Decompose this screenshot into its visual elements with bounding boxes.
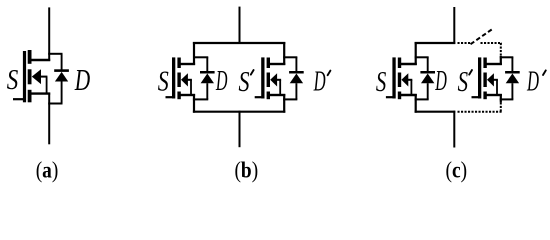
svg-text:S: S xyxy=(7,64,19,96)
node S-prime tick (b) xyxy=(251,70,254,75)
transistor Q2 body-source tie wire xyxy=(190,80,192,95)
diode DQ4 cathode wire xyxy=(427,57,429,71)
transistor Q2 drain stub wire xyxy=(180,63,195,65)
transistor Q3 channel segment bottom xyxy=(267,92,270,100)
transistor Q5 body arrow xyxy=(487,73,494,86)
transistor Q2 source stub wire xyxy=(180,94,195,96)
transistor Q5 channel segment middle xyxy=(483,73,486,88)
transistor Q1 channel segment top xyxy=(28,50,32,64)
diode DQ2 top branch wire xyxy=(193,56,208,58)
transistor Q4 source corner wire xyxy=(415,94,417,113)
wire source lead (bottom) xyxy=(48,93,50,145)
transistor Q2 channel segment middle xyxy=(177,73,180,88)
transistor Q5 gate lead wire xyxy=(472,96,480,98)
transistor Q2 source corner wire xyxy=(193,94,195,113)
svg-text:D: D xyxy=(215,65,227,97)
transistor Q4 channel segment middle xyxy=(398,73,401,88)
transistor Q2 channel segment bottom xyxy=(177,92,180,100)
transistor Q1 body tail wire xyxy=(40,76,47,78)
transistor Q5 gate bar xyxy=(478,57,481,98)
transistor Q1 body-source tie wire xyxy=(46,77,48,94)
transistor Q2 drain corner wire xyxy=(193,42,195,65)
diode DQ3 triangle xyxy=(290,74,303,84)
diode DQ3 cathode bar xyxy=(289,71,304,74)
diode DQ1 triangle xyxy=(55,72,68,82)
diode DQ3 cathode wire xyxy=(295,57,297,71)
transistor Q5 channel segment top xyxy=(483,58,486,69)
diode DQ5 cathode bar xyxy=(505,71,520,74)
transistor Q2 body tail wire xyxy=(187,79,192,81)
diode DQ5 cathode wire xyxy=(511,57,513,71)
transistor Q3 body arrow xyxy=(270,73,277,86)
diode DQ2 anode wire xyxy=(206,83,208,99)
svg-text:(b): (b) xyxy=(234,157,258,183)
transistor Q1 gate lead wire xyxy=(13,98,24,100)
wire dashed bottom corner of (c) right device xyxy=(500,102,502,111)
transistor Q4 body tail wire xyxy=(407,79,412,81)
diode DQ1 cathode wire xyxy=(61,54,63,70)
diode DQ4 triangle xyxy=(421,74,434,84)
transistor Q5 drain stub wire xyxy=(486,63,502,65)
svg-text:(c): (c) xyxy=(446,157,468,183)
transistor Q3 source stub wire xyxy=(270,94,286,96)
diode DQ3 top branch wire xyxy=(283,56,297,58)
diode DQ4 bottom branch wire xyxy=(415,98,429,100)
transistor Q1 gate bar xyxy=(23,51,26,102)
diode DQ1 top branch wire xyxy=(48,53,62,55)
transistor Q3 source corner wire xyxy=(283,94,285,113)
diode DQ1 bottom branch wire xyxy=(48,103,62,105)
svg-text:S: S xyxy=(158,66,169,98)
transistor Q4 drain stub wire xyxy=(401,63,417,65)
svg-text:D: D xyxy=(313,66,326,98)
transistor Q4 drain corner wire xyxy=(415,42,417,65)
svg-text:D: D xyxy=(74,63,90,97)
transistor Q3 channel segment top xyxy=(267,58,270,69)
transistor Q1 channel segment bottom xyxy=(28,90,32,103)
transistor Q5 body-source tie wire xyxy=(496,80,498,95)
transistor Q5 body tail wire xyxy=(493,79,498,81)
node D-prime tick (c) xyxy=(543,70,546,75)
transistor Q4 body arrow xyxy=(401,73,408,86)
transistor Q5 channel segment bottom xyxy=(483,92,486,100)
wire top rail solid of (c) xyxy=(415,42,456,44)
diode DQ4 cathode bar xyxy=(420,71,435,74)
diode DQ4 top branch wire xyxy=(415,56,429,58)
node D-prime tick (b) xyxy=(328,71,331,76)
svg-text:S: S xyxy=(239,66,250,98)
wire dashed top corner of (c) right device xyxy=(500,43,502,56)
transistor Q3 channel segment middle xyxy=(267,73,270,88)
transistor Q3 gate lead wire xyxy=(255,96,263,98)
diode DQ2 triangle xyxy=(201,74,214,84)
svg-text:D: D xyxy=(526,66,539,98)
transistor Q4 channel segment bottom xyxy=(398,92,401,100)
wire bottom lead of (c) xyxy=(453,111,455,148)
transistor Q2 gate bar xyxy=(172,57,175,98)
wire top rail dashed segment 1 of (c) xyxy=(458,42,472,44)
transistor Q4 body-source tie wire xyxy=(410,80,412,95)
transistor Q3 body-source tie wire xyxy=(279,80,281,95)
wire solid bottom corner stub of (c) right device xyxy=(500,94,502,102)
diode DQ2 cathode wire xyxy=(206,57,208,71)
wire bottom rail dashed of (c) xyxy=(458,111,502,113)
wire top lead of (b) xyxy=(239,7,241,44)
diode DQ1 anode wire xyxy=(61,81,63,103)
wire top lead of (c) xyxy=(453,7,455,44)
transistor Q3 gate bar xyxy=(261,57,264,98)
svg-text:(a): (a) xyxy=(36,157,59,183)
transistor Q3 drain corner wire xyxy=(283,42,285,65)
svg-text:S: S xyxy=(458,66,469,98)
node S-prime tick (c) xyxy=(469,70,472,75)
wire drain lead (top) xyxy=(48,7,50,61)
transistor Q5 source stub wire xyxy=(486,94,502,96)
wire bottom rail solid of (c) xyxy=(415,111,456,113)
diode DQ3 bottom branch wire xyxy=(283,98,297,100)
diode DQ5 top branch wire xyxy=(500,56,514,58)
wire top rail dashed segment 2 of (c) xyxy=(481,42,502,44)
transistor Q4 source stub wire xyxy=(401,94,417,96)
transistor Q3 body tail wire xyxy=(276,79,281,81)
transistor Q1 drain stub wire xyxy=(31,59,50,61)
open switch blade dashed of (c) xyxy=(471,29,493,44)
transistor Q4 gate lead wire xyxy=(386,96,394,98)
transistor Q4 channel segment top xyxy=(398,58,401,69)
wire bottom lead of (b) xyxy=(239,111,241,148)
diode DQ5 anode wire xyxy=(511,83,513,99)
transistor Q2 channel segment top xyxy=(177,58,180,69)
wire bottom rail of (b) xyxy=(193,111,285,113)
transistor Q1 channel segment middle xyxy=(28,69,32,84)
diode DQ3 anode wire xyxy=(295,83,297,99)
diode DQ5 triangle xyxy=(506,74,519,84)
svg-text:D: D xyxy=(435,65,447,97)
wire solid top corner stub of (c) right device xyxy=(500,56,502,65)
diode DQ1 cathode bar xyxy=(54,69,69,72)
diode DQ2 cathode bar xyxy=(200,71,215,74)
wire top rail of (b) xyxy=(193,42,285,44)
diode DQ5 bottom branch wire xyxy=(500,98,514,100)
svg-text:S: S xyxy=(376,66,387,98)
diode DQ4 anode wire xyxy=(427,83,429,99)
transistor Q2 body arrow xyxy=(181,73,188,86)
transistor Q4 gate bar xyxy=(392,57,395,98)
transistor Q2 gate lead wire xyxy=(166,96,174,98)
transistor Q1 source stub wire xyxy=(31,92,50,94)
transistor Q3 drain stub wire xyxy=(270,63,286,65)
diode DQ2 bottom branch wire xyxy=(193,98,208,100)
transistor Q1 body arrow xyxy=(32,69,41,84)
